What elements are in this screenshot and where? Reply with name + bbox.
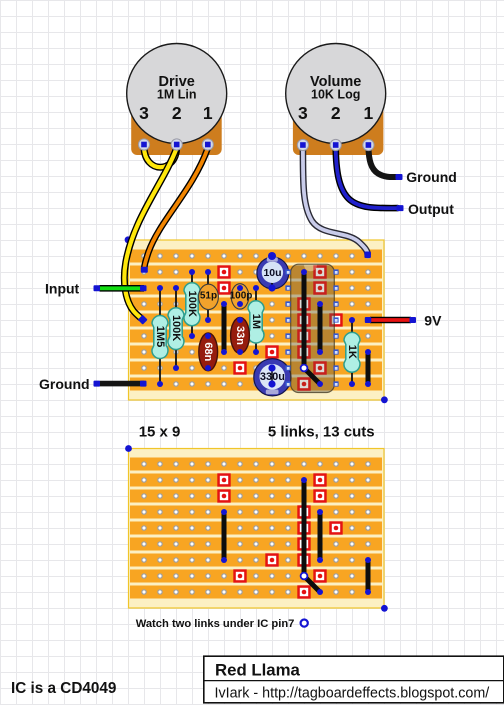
- track cut diagram col11 row6: [297, 537, 310, 550]
- svg-text:3: 3: [139, 103, 149, 123]
- svg-text:Output: Output: [408, 201, 454, 217]
- under-IC cut highlights: [297, 265, 326, 390]
- stripboard cuts diagram: [129, 449, 385, 609]
- svg-text:1: 1: [203, 103, 213, 123]
- label Ground left: [39, 376, 90, 392]
- svg-text:1M: 1M: [250, 314, 262, 329]
- svg-text:51p: 51p: [200, 291, 217, 302]
- svg-text:Red Llama: Red Llama: [215, 661, 301, 680]
- svg-text:1M5: 1M5: [154, 326, 166, 347]
- link diagram col6 rows4-7: [221, 509, 227, 563]
- svg-text:10u: 10u: [263, 267, 281, 279]
- label 5 links, 13 cuts: [268, 424, 375, 441]
- svg-text:3: 3: [298, 103, 308, 123]
- svg-text:Ground: Ground: [39, 376, 90, 392]
- title box: [204, 656, 504, 703]
- wire Volume lug2 to Output (blue): [336, 147, 404, 211]
- svg-text:33n: 33n: [234, 326, 246, 345]
- resistor 1K: [344, 317, 360, 387]
- resistor 100K (second): [184, 269, 200, 339]
- IC pin pad right row7: [333, 349, 338, 354]
- link diagram col11 rows2-8: [301, 477, 307, 576]
- link main col6 rows4-7: [221, 301, 227, 355]
- link diagram col12 rows4-7: [317, 509, 323, 563]
- link diagram diagonal col11 row8 to col12 row9: [301, 573, 323, 595]
- svg-text:100p: 100p: [230, 291, 253, 302]
- track cut main col9 row7: [265, 345, 278, 358]
- track cut diagram col13 row5: [329, 521, 342, 534]
- Volume pin labels 3 2 1: [298, 103, 374, 123]
- link diagram col15 rows7-9: [365, 557, 371, 595]
- svg-text:IvIark - http://tagboardeffect: IvIark - http://tagboardeffects.blogspot…: [215, 686, 490, 702]
- track cut main col12 row2: [313, 265, 326, 278]
- link main col12 rows4-7: [317, 301, 323, 355]
- IC pin pad left row7: [285, 349, 290, 354]
- label Output: [408, 201, 454, 217]
- IC pin pad left row6: [285, 333, 290, 338]
- track cut diagram col11 row4: [297, 505, 310, 518]
- IC pin pad right row6: [333, 333, 338, 338]
- svg-text:IC is a CD4049: IC is a CD4049: [11, 680, 116, 697]
- IC pin pad left row4: [285, 301, 290, 306]
- track cut main col11 row6: [297, 329, 310, 342]
- IC pin pad left row2: [285, 269, 290, 274]
- link main diagonal col11 row8 to col12 row9: [301, 365, 323, 387]
- IC pin pad left row3: [285, 285, 290, 290]
- track cut main col11 row4: [297, 297, 310, 310]
- svg-text:Watch two links under IC pin7: Watch two links under IC pin7: [136, 618, 295, 630]
- IC U1 CD4049 body: [291, 264, 335, 392]
- Drive pin labels 3 2 1: [139, 103, 213, 123]
- cuts board corner markers: [125, 445, 388, 612]
- capacitor 51p: [199, 269, 219, 323]
- IC pin pad right row4: [333, 301, 338, 306]
- wire Ground left (black): [94, 381, 147, 387]
- track cut diagram col6 row2: [217, 473, 230, 486]
- track cut diagram col11 row9: [297, 585, 310, 598]
- svg-text:10K Log: 10K Log: [311, 88, 360, 102]
- wire 9V supply (red): [365, 317, 416, 323]
- svg-text:Ground: Ground: [406, 169, 457, 185]
- svg-text:100K: 100K: [170, 315, 182, 341]
- track cut diagram col9 row7: [265, 553, 278, 566]
- svg-text:9V: 9V: [424, 312, 442, 328]
- track cut diagram col12 row2: [313, 473, 326, 486]
- label Input: [45, 280, 80, 296]
- wire Volume lug3 to board (lavender): [303, 147, 371, 258]
- capacitor 100p: [230, 284, 253, 309]
- potentiometer Drive 1M Lin: [127, 44, 227, 156]
- track cut main col6 row3: [217, 281, 230, 294]
- title text Red Llama: [215, 661, 301, 680]
- svg-text:2: 2: [331, 103, 341, 123]
- IC pin pad right row2: [333, 269, 338, 274]
- track cut main col12 row3: [313, 281, 326, 294]
- resistor 1M5: [152, 285, 168, 387]
- svg-text:1: 1: [364, 103, 374, 123]
- svg-text:68n: 68n: [202, 342, 214, 361]
- label Ground right: [406, 169, 457, 185]
- track cut main col6 row2: [217, 265, 230, 278]
- svg-text:Input: Input: [45, 280, 80, 296]
- wire Drive jumper lug3 to lug2 (yellow): [144, 147, 177, 167]
- track cut main col7 row8: [233, 361, 246, 374]
- wire Drive lug1 to board (orange): [141, 148, 208, 273]
- svg-text:1M Lin: 1M Lin: [157, 88, 197, 102]
- capacitor 10u electrolytic: [257, 252, 289, 292]
- track cut main col12 row8: [313, 361, 326, 374]
- IC pin pad right row8: [333, 365, 338, 370]
- potentiometer Volume 10K Log: [286, 44, 386, 156]
- resistor 1M: [248, 285, 264, 355]
- capacitor 330u electrolytic: [254, 359, 291, 396]
- svg-text:1K: 1K: [346, 345, 358, 359]
- track cut main col11 row9: [297, 377, 310, 390]
- note IC is a CD4049: [11, 680, 116, 697]
- note watch two links under IC pin7: [136, 618, 308, 630]
- Volume lugs 3,2,1: [297, 139, 374, 150]
- wire Input (green): [94, 285, 147, 291]
- track cut main col13 row5: [329, 313, 342, 326]
- capacitor 33n: [231, 317, 250, 355]
- svg-text:2: 2: [172, 103, 182, 123]
- label 15 x 9: [139, 424, 181, 441]
- IC pin pad left row5: [285, 317, 290, 322]
- IC pin pad left row8: [285, 365, 290, 370]
- track cut diagram col11 row5: [297, 521, 310, 534]
- label 9V: [424, 312, 442, 328]
- svg-text:5 links, 13 cuts: 5 links, 13 cuts: [268, 424, 375, 441]
- IC pin pad right row5: [333, 317, 338, 322]
- track cut diagram col6 row3: [217, 489, 230, 502]
- IC pin pad right row3: [333, 285, 338, 290]
- svg-text:100K: 100K: [186, 291, 198, 317]
- link main col11 rows2-8: [301, 269, 307, 368]
- resistor 100K (first): [168, 285, 184, 371]
- capacitor 68n: [199, 333, 218, 371]
- IC pin pad right row9: [333, 381, 338, 386]
- track cut diagram col12 row8: [313, 569, 326, 582]
- IC pin pad left row9: [285, 381, 290, 386]
- track cut main col11 row5: [297, 313, 310, 326]
- wire Volume lug1 to Ground (black): [368, 147, 402, 180]
- stripboard main: [129, 240, 385, 400]
- credit text: [215, 686, 490, 702]
- track cut main col11 row7: [297, 345, 310, 358]
- wire Drive lug2 to board (yellow): [124, 148, 176, 325]
- link main col15 rows7-9: [365, 349, 371, 387]
- main board corner markers: [125, 236, 388, 403]
- Drive lugs 3,2,1: [138, 139, 213, 150]
- svg-text:15 x 9: 15 x 9: [139, 424, 181, 441]
- track cut diagram col11 row7: [297, 553, 310, 566]
- track cut diagram col7 row8: [233, 569, 246, 582]
- track cut diagram col12 row3: [313, 489, 326, 502]
